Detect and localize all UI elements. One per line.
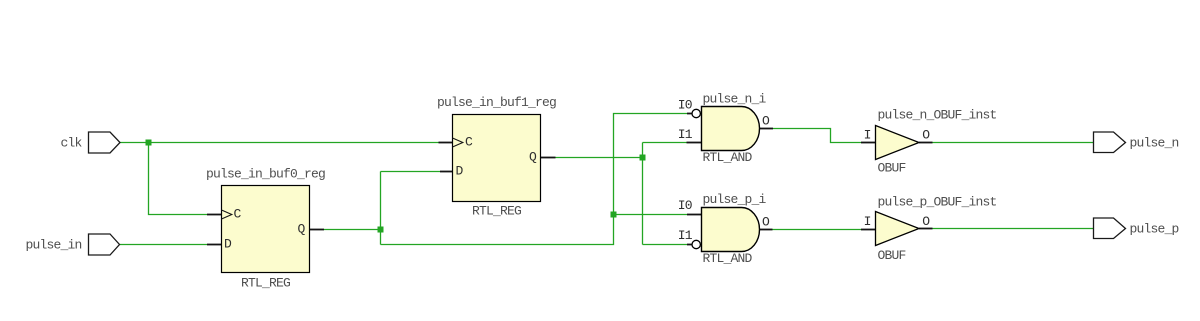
svg-text:D: D	[224, 237, 232, 252]
svg-text:O: O	[922, 214, 930, 229]
svg-text:pulse_n: pulse_n	[1130, 136, 1179, 151]
svg-text:I: I	[864, 128, 871, 143]
svg-text:I0: I0	[678, 98, 692, 113]
svg-text:I0: I0	[678, 198, 692, 213]
svg-text:pulse_in: pulse_in	[26, 238, 82, 253]
svg-text:pulse_n_i: pulse_n_i	[703, 92, 767, 107]
svg-text:RTL_REG: RTL_REG	[241, 276, 290, 291]
svg-text:RTL_AND: RTL_AND	[703, 251, 753, 266]
svg-text:pulse_in_buf0_reg: pulse_in_buf0_reg	[206, 167, 325, 182]
svg-text:pulse_p_OBUF_inst: pulse_p_OBUF_inst	[878, 195, 997, 210]
svg-text:clk: clk	[61, 136, 83, 151]
svg-text:O: O	[922, 128, 930, 143]
svg-text:I1: I1	[678, 127, 693, 142]
svg-text:D: D	[456, 164, 464, 179]
svg-text:Q: Q	[529, 150, 537, 165]
svg-text:OBUF: OBUF	[878, 161, 906, 176]
svg-text:I: I	[864, 214, 871, 229]
svg-text:O: O	[762, 114, 770, 129]
svg-text:C: C	[234, 207, 242, 222]
svg-text:pulse_p_i: pulse_p_i	[703, 192, 767, 207]
svg-text:I1: I1	[678, 228, 693, 243]
svg-text:RTL_AND: RTL_AND	[703, 150, 753, 165]
svg-text:pulse_p: pulse_p	[1130, 222, 1179, 237]
svg-text:pulse_in_buf1_reg: pulse_in_buf1_reg	[437, 95, 556, 110]
svg-text:OBUF: OBUF	[878, 248, 906, 263]
svg-text:RTL_REG: RTL_REG	[472, 204, 521, 219]
svg-text:O: O	[762, 215, 770, 230]
svg-text:Q: Q	[298, 222, 306, 237]
svg-text:pulse_n_OBUF_inst: pulse_n_OBUF_inst	[878, 108, 997, 123]
svg-text:C: C	[465, 135, 473, 150]
